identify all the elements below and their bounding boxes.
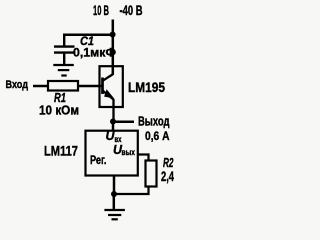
ground under C1 [53,65,74,76]
node ground junction [111,191,117,197]
wire power rail vertical [112,20,115,75]
label supply "10 В - 40 В" [93,3,143,18]
label 0,1мкФ [73,46,116,60]
label Uвых [113,142,135,157]
wire output [113,120,134,123]
svg-text:Выход: Выход [138,115,170,129]
label 0,6 А [145,129,170,143]
svg-text:0,6 А: 0,6 А [145,129,170,143]
label Uвх [106,128,122,144]
transistor Q1 LM195 package box [100,66,123,107]
ground bottom [104,210,125,219]
label 2,4 [161,168,174,184]
svg-text:вых: вых [122,147,136,157]
svg-text:Вход: Вход [6,79,29,91]
resistor R2 [146,161,157,187]
svg-text:2,4: 2,4 [161,168,174,184]
label LM195 [128,79,165,95]
label R2 [163,155,174,170]
IC U1 LM117 box [86,131,138,176]
wire to ground symbol [113,194,116,209]
svg-text:Рег.: Рег. [90,155,107,167]
svg-text:-40 В: -40 В [120,3,143,18]
wire R1 to base [78,85,103,88]
node junction supply/C1 [110,32,116,38]
wire Uвых pin to R2 [138,155,149,161]
label LM117 [44,143,78,159]
wire emitter node to LM117 input [112,122,115,132]
label 10 кОм [39,103,79,118]
transistor Q1 symbol [102,74,114,122]
wire Рег pin down [113,176,116,195]
label Выход [138,115,170,129]
svg-text:0,1мкФ: 0,1мкФ [73,46,116,60]
svg-text:10 В: 10 В [93,3,109,18]
label Вход [6,79,29,91]
resistor R1 [48,81,78,91]
wire rail to C1 [63,33,113,36]
node output junction [110,119,116,125]
label R1 [54,90,66,105]
svg-text:LM117: LM117 [44,143,78,159]
svg-text:LM195: LM195 [128,79,165,95]
capacitor C1 [54,34,75,65]
label C1 [80,34,94,48]
wire input [33,85,48,88]
svg-text:10 кОм: 10 кОм [39,103,79,118]
label Рег. [90,155,107,167]
wire R2 bottom to ground rail [114,187,149,195]
